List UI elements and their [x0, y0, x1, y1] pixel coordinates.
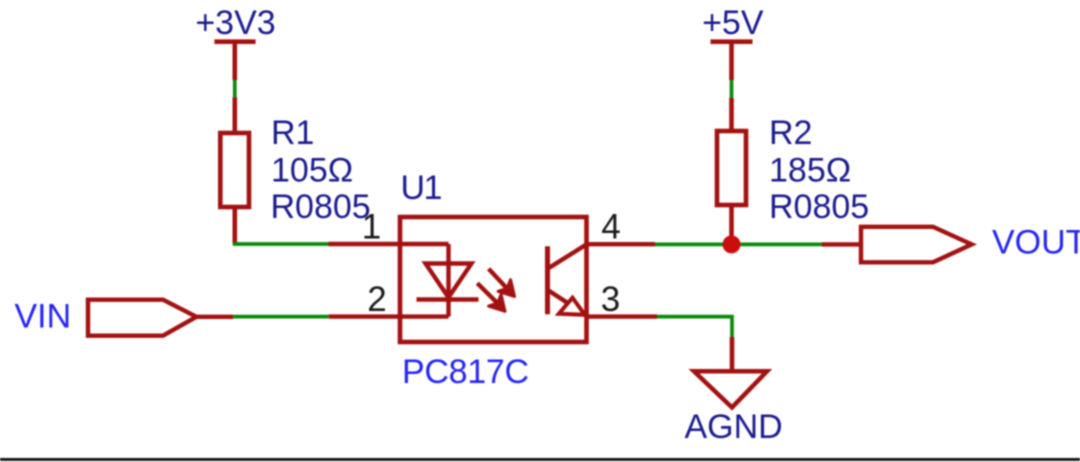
U1 pin 2 [329, 314, 449, 318]
port VOUT flag [861, 227, 972, 262]
LED light arrow 1 shaft [489, 269, 506, 288]
svg-text:U1: U1 [401, 169, 442, 207]
wire to VOUT port pin [822, 242, 861, 246]
resistor R2 bottom pin [729, 205, 734, 244]
wire U1 pin 3 to AGND [657, 317, 732, 337]
power symbol +3V3 bar [214, 39, 255, 44]
resistor R1 bottom pin [233, 207, 238, 244]
svg-text:R1: R1 [271, 114, 314, 152]
svg-text:105Ω: 105Ω [271, 151, 353, 189]
svg-text:2: 2 [367, 280, 386, 319]
power symbol +3V3 pin [233, 42, 238, 80]
svg-text:+5V: +5V [702, 4, 764, 42]
resistor R2 top pin [729, 98, 734, 131]
phototransistor collector line [549, 245, 586, 268]
LED light arrow 2 shaft [477, 283, 496, 302]
wire +5V to R2 [730, 80, 734, 98]
LED internal vertical link [446, 244, 450, 317]
svg-text:1: 1 [362, 208, 381, 247]
sheet border bottom line [0, 458, 1080, 461]
svg-text:AGND: AGND [685, 408, 783, 446]
svg-text:R0805: R0805 [271, 188, 371, 226]
LED cathode bar [417, 297, 479, 301]
port VIN flag [88, 300, 196, 336]
svg-text:+3V3: +3V3 [195, 4, 275, 42]
wire +3V3 to R1 [233, 80, 237, 98]
junction node dot [723, 235, 741, 253]
svg-text:185Ω: 185Ω [769, 151, 851, 189]
svg-text:PC817C: PC817C [402, 353, 529, 391]
svg-text:R2: R2 [769, 114, 812, 152]
phototransistor emitter arrowhead [559, 298, 585, 315]
LED triangle [426, 264, 472, 298]
power symbol +5V bar [711, 39, 753, 44]
wire R1 to U1 pin 1 [233, 242, 329, 246]
ground AGND pin [730, 337, 735, 370]
resistor R2 body [717, 131, 746, 205]
op-amp U1 body box [400, 217, 587, 342]
wire VIN to U1 pin 2 [233, 315, 328, 319]
svg-text:3: 3 [601, 280, 620, 319]
svg-text:VOUT: VOUT [992, 224, 1080, 262]
wire U1 pin 4 to VOUT [655, 243, 822, 247]
LED light arrow 2 head [489, 295, 505, 312]
phototransistor base bar [545, 246, 550, 314]
svg-text:4: 4 [601, 208, 620, 247]
U1 pin 4 [587, 242, 656, 246]
svg-text:VIN: VIN [15, 298, 72, 336]
resistor R1 top pin [233, 98, 238, 134]
ground AGND triangle [694, 371, 767, 407]
svg-text:R0805: R0805 [769, 188, 869, 226]
resistor R1 body [220, 133, 249, 207]
U1 pin 3 [587, 314, 658, 318]
U1 pin 1 [329, 242, 449, 246]
VIN port pin [196, 315, 233, 319]
power symbol +5V pin [729, 42, 734, 80]
LED light arrow 1 head [498, 280, 514, 297]
phototransistor emitter line [549, 291, 584, 314]
